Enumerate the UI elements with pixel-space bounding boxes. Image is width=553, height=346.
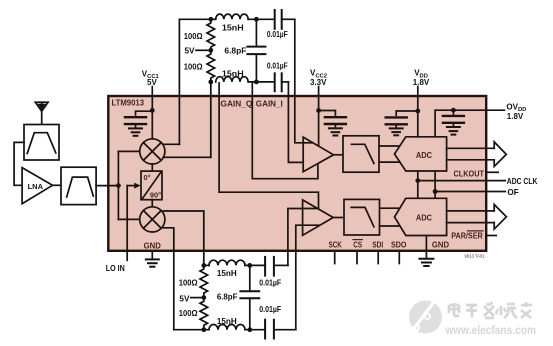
ADC U1 [395,137,447,171]
node bottom rail left [208,80,213,85]
pin stub CLKOUT [486,171,498,173]
watermark chinese characters [449,302,532,318]
svg-text:0.01µF: 0.01µF [267,61,288,70]
capacitor C4 6.8pF [240,265,259,329]
wire GAIN_Q to amp A2 [219,83,318,208]
resistor R2 100 ohm [207,50,215,82]
pin stub SDO [398,251,400,264]
ground symbol below GND pin [146,251,159,267]
resistor R3 100 ohm [200,265,208,297]
wire ADC U1 OF vertical [434,171,436,198]
label VCC1 5V [142,70,160,88]
phase splitter 0/90 [141,171,162,200]
node bottom net bottom left [201,327,206,332]
svg-text:0.01µF: 0.01µF [267,30,288,39]
wire rail to node [248,18,275,20]
capacitor C3 0.01uF bottom [275,73,289,91]
bandpass filter FL2 [61,167,96,204]
svg-text:OF: OF [507,188,518,197]
svg-text:SDI: SDI [372,240,383,249]
wire VCC1 to mixer M1 [151,87,153,139]
LO IN pin stub [126,251,128,260]
capacitor C5 0.01uF upper [265,257,288,276]
wire OF [435,191,505,193]
filter F2 lowpass [344,199,380,235]
bus arrow bottom channel [494,205,506,230]
svg-text:GND: GND [144,241,161,250]
wire ADC U1 output bus upper [447,147,495,149]
capacitor C1 6.8pF [247,19,265,82]
svg-text:CS: CS [353,240,362,249]
wire mixer M2 lower output to left rail [163,228,174,330]
mixer M2 [140,207,165,232]
wire GAIN_I to amp A1 [252,83,318,179]
wire F2 to ADC U2 upper [380,207,401,209]
node top rail right [254,17,259,22]
svg-text:GAIN_Q: GAIN_Q [221,100,253,109]
node OVDD junction [451,108,456,113]
svg-text:SCK: SCK [329,240,342,249]
svg-text:5V: 5V [185,47,196,56]
svg-text:5V: 5V [179,294,190,303]
bypass capacitor and ground at VDD [386,111,418,135]
wire ADC U2 output bus upper [447,210,495,212]
inductor L3 15nH [209,260,245,265]
wire LO IN to phase splitter [126,186,128,251]
svg-text:15nH: 15nH [222,23,244,32]
node RF input junction [116,183,121,188]
filter F1 lowpass [343,136,379,172]
wire left rail of top network [178,19,180,144]
capacitor C2 0.01uF top [275,10,295,29]
svg-text:ADC CLK: ADC CLK [507,177,538,186]
wire VCC2 to amp A1 [318,87,320,146]
node bottom rail right [254,80,259,85]
wire ADC U1 output bus lower [447,159,495,161]
svg-text:0.01µF: 0.01µF [259,279,281,288]
ground symbol below GND pin [419,259,433,266]
inductor L4 15nH [209,325,245,330]
wire F1 to ADC U1 lower [379,161,400,163]
node top rail left [208,17,213,22]
inductor L1 15nH [216,14,248,19]
wire amp A1 to filter F1 [334,154,344,156]
svg-text:6.8pF: 6.8pF [224,47,246,56]
wire ADC U1 clock vertical [417,171,419,198]
top network rail [179,18,215,20]
wire mixer M1 upper output to network [164,143,180,145]
svg-text:LTM9013: LTM9013 [112,98,145,108]
svg-text:90°: 90° [150,191,161,200]
wire amp A2 to filter F2 [333,217,344,219]
pin stub SDI [377,251,379,264]
amplifier A1 [303,137,333,172]
svg-text:15nH: 15nH [217,317,237,326]
wire FL1 to LNA input [14,142,24,185]
pin stub PAR/SER [486,235,496,237]
wire mixer M1 to phase splitter [151,164,153,171]
node VDD junction [415,109,420,114]
bypass capacitor and ground at VCC2 [319,111,346,136]
wire mixer M1 lower output to network [163,156,211,158]
node 5V tap [208,48,213,53]
node 5V tap bottom [201,295,206,300]
svg-text:PAR/SER: PAR/SER [451,232,483,241]
svg-text:ADC: ADC [416,213,432,223]
label OVDD 1.8V [506,102,526,121]
svg-text:LNA: LNA [28,182,44,191]
overline SER [468,230,484,232]
wire resistor column to mixer elbow [210,82,212,157]
node ADC CLK junction [415,178,420,183]
wire LNA to FL2 [53,184,62,186]
wire ADC U2 output bus lower [447,222,495,224]
svg-text:GAIN_I: GAIN_I [256,100,283,109]
wire C2 to amp A1 upper input [295,19,303,143]
watermark logo circle [409,295,442,334]
capacitor C6 0.01uF lower [265,320,296,339]
label VCC2 3.3V [310,69,327,88]
svg-text:100Ω: 100Ω [184,32,203,41]
svg-text:CLKOUT: CLKOUT [454,169,485,178]
wire FL2 to RF input node [96,185,118,187]
inductor L2 15nH [216,77,248,82]
LNA amplifier [22,168,52,204]
antenna [35,102,48,124]
svg-text:0.01µF: 0.01µF [259,305,281,314]
svg-text:ADC: ADC [416,150,432,160]
wire RF split vertical [117,151,119,219]
svg-text:LO IN: LO IN [106,264,125,273]
wire OVDD rail [435,110,504,137]
node bottom net top right [247,263,252,268]
wire RF to mixer M2 [118,218,139,220]
node OF junction [433,189,438,194]
svg-text:0°: 0° [144,173,151,182]
wire C3 to amp A1 lower input [288,82,319,162]
svg-text:100Ω: 100Ω [179,279,198,288]
svg-text:6.8pF: 6.8pF [217,293,238,302]
mixer M1 [140,139,165,164]
ADC U2 [395,198,447,235]
svg-text:1.8V: 1.8V [507,112,524,121]
bus arrow top channel [494,142,506,167]
svg-text:www.elecfans.com: www.elecfans.com [445,325,536,337]
wire VDD to ADC U1 [417,87,419,137]
resistor R1 100 ohm [207,19,215,50]
wire F1 to ADC U1 upper [379,145,400,147]
wire mixer M2 upper output down to bottom network [164,211,204,265]
wire F2 to ADC U2 lower [380,225,401,227]
wire bottom network to amp A2 lower input [296,225,320,330]
wire phase splitter to mixer M2 [151,200,153,207]
svg-text:SDO: SDO [391,240,407,249]
pin stub SCK [334,251,336,264]
svg-text:9013 TA01: 9013 TA01 [465,254,486,259]
wire top rail to cap [245,264,265,266]
wire 5V dash [196,49,208,51]
wire 5V dash [191,297,201,299]
svg-text:GND: GND [432,240,449,249]
label VDD 1.8V [413,69,430,88]
bottom network top rail [204,264,209,266]
svg-text:100Ω: 100Ω [184,62,203,71]
wire ADC CLK [418,180,506,182]
svg-text:100Ω: 100Ω [179,309,198,318]
wire bottom rail [248,81,275,83]
wire bottom network to amp A2 upper input [288,209,318,266]
svg-text:15nH: 15nH [217,269,237,278]
amplifier A1 upper input line extension [303,142,312,144]
wire RF to mixer M1 [118,150,139,152]
arrow into phase splitter [134,183,140,189]
node VCC2 junction [316,108,321,113]
pin stub CS [356,251,358,264]
svg-text:15nH: 15nH [222,70,244,79]
amplifier A2 [303,200,334,235]
wire bottom rail left segment [174,329,209,331]
wire bottom rail to cap [245,329,265,331]
node bottom net bottom right [247,327,252,332]
svg-text:1.8V: 1.8V [413,78,430,87]
node VCC1 junction [150,108,155,113]
bypass capacitor and ground at OVDD [443,110,464,134]
LTM9013 module body [108,96,486,251]
bypass capacitor and ground at VCC1 [125,111,152,136]
resistor R4 100 ohm [200,298,208,330]
overline CS [353,239,362,241]
node bottom net top left [201,263,206,268]
wire ADC U2 to GND pin [425,236,427,259]
bandpass filter FL1 [24,125,59,161]
